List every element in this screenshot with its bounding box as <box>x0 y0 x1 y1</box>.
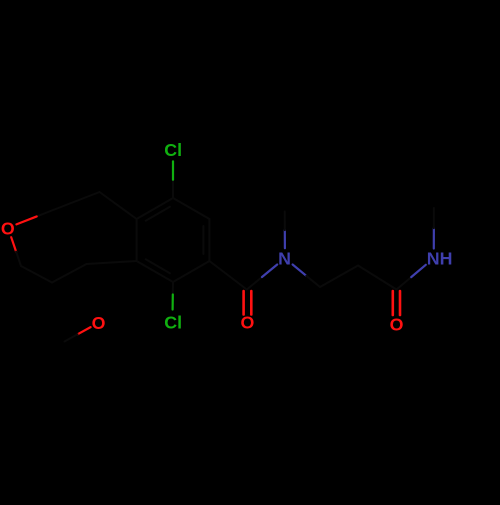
bond ring to carbonyl C1 <box>209 261 246 290</box>
svg-text:O: O <box>92 313 106 333</box>
methoxide O to CH3 (red half) <box>78 327 91 334</box>
benzene ring <box>137 198 210 282</box>
svg-text:N: N <box>278 248 291 268</box>
left ring: benzene UL to Cc <box>100 192 137 219</box>
N to CH2a (blue half) <box>293 265 307 276</box>
atom labels <box>1 140 453 334</box>
N to CH2a (dark half) <box>306 276 320 287</box>
carbonyl C1=O double bond (red) <box>244 291 252 315</box>
Ca to O left (dark half) <box>37 209 57 217</box>
svg-text:Cl: Cl <box>164 313 182 333</box>
bond C1 to N (blue half) <box>262 265 277 278</box>
svg-text:NH: NH <box>427 248 453 268</box>
O left to Cb (dark half) <box>16 252 21 266</box>
svg-text:O: O <box>390 314 404 334</box>
CH2a to CH2b <box>320 266 358 288</box>
bond C1 to N (dark half) <box>247 277 262 290</box>
svg-text:O: O <box>1 219 15 239</box>
methoxide O to CH3 (dark half) <box>65 334 78 341</box>
Ce to benzene LL <box>87 261 137 264</box>
bond ring to Cl bottom (dark half) <box>172 282 174 295</box>
Cb to Cd <box>21 266 52 283</box>
Cd to Ce <box>52 264 87 283</box>
NH methyl bond (blue half) <box>433 228 435 248</box>
Ca to O left (red half) <box>16 216 36 224</box>
Cc to Ca <box>57 192 100 209</box>
CH2b to C2 <box>358 266 397 290</box>
svg-text:Cl: Cl <box>164 140 182 160</box>
C2 to NH (blue half) <box>411 265 426 277</box>
svg-text:O: O <box>240 312 254 332</box>
C2 to NH (dark half) <box>397 277 412 289</box>
NH methyl bond (dark half) <box>433 208 435 228</box>
N methyl bond (blue half) <box>284 230 286 248</box>
bond to Cl top (green half) <box>172 161 174 179</box>
bond to Cl bottom (green half) <box>172 295 174 310</box>
N methyl bond (dark half) <box>284 212 286 231</box>
carbonyl C2=O double bond (red) <box>393 291 400 315</box>
bond ring to Cl top (dark half) <box>172 180 174 198</box>
O left to Cb (red half) <box>11 237 16 251</box>
